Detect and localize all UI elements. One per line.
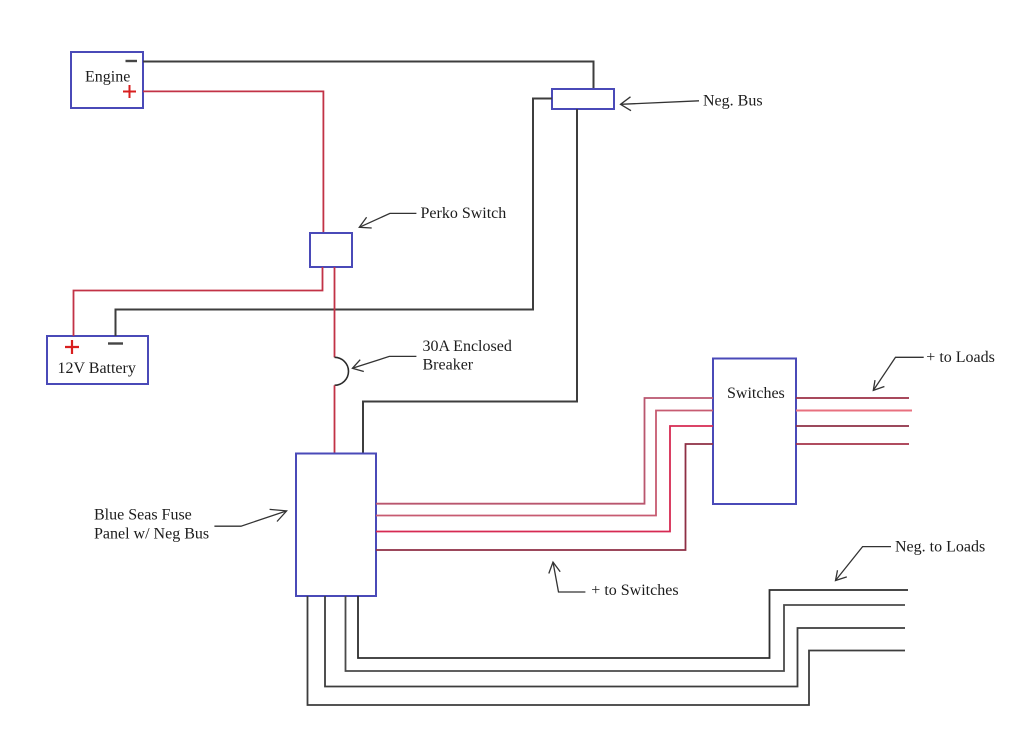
leader arrow to + loads wires bbox=[873, 357, 923, 390]
svg-text:+ to Switches: + to Switches bbox=[591, 582, 678, 599]
wire perko switch to battery positive bbox=[74, 267, 323, 336]
svg-text:Engine: Engine bbox=[85, 69, 130, 86]
svg-text:Perko Switch: Perko Switch bbox=[421, 205, 507, 222]
battery positive terminal marker bbox=[65, 340, 79, 354]
wire fuse panel to switches 1 bbox=[376, 398, 713, 504]
switches block bbox=[713, 359, 796, 505]
wire switches to loads 1 bbox=[796, 397, 909, 399]
wire fuse panel to switches 2 bbox=[376, 411, 713, 516]
battery negative terminal marker bbox=[108, 342, 123, 344]
fuse panel block bbox=[296, 454, 376, 597]
wire fuse panel neg to loads 2 bbox=[346, 596, 906, 671]
engine block bbox=[71, 52, 143, 108]
breaker 30A arc bbox=[335, 357, 349, 385]
leader arrow to neg loads wires bbox=[836, 547, 892, 581]
wire fuse panel neg to loads 1 bbox=[358, 590, 908, 658]
wire engine negative to neg bus bbox=[143, 62, 594, 90]
wire breaker to fuse panel bbox=[334, 385, 336, 453]
wire perko switch to breaker bbox=[334, 267, 336, 357]
wire switches to loads 2 bbox=[796, 410, 912, 412]
svg-text:Switches: Switches bbox=[727, 385, 785, 402]
battery block bbox=[47, 336, 148, 384]
neg bus block bbox=[552, 89, 614, 109]
leader arrow to neg bus bbox=[621, 97, 700, 111]
perko switch block bbox=[310, 233, 352, 267]
svg-text:Breaker: Breaker bbox=[423, 357, 474, 374]
wire fuse panel neg to loads 3 bbox=[325, 596, 905, 687]
wire switches to loads 3 bbox=[796, 425, 909, 427]
leader arrow to + switches wires bbox=[549, 562, 586, 592]
label 30A Enclosed Breaker bbox=[423, 338, 512, 374]
wire battery negative to neg bus bbox=[116, 99, 553, 337]
wire fuse panel neg to loads 4 bbox=[308, 596, 906, 705]
wire fuse panel to switches 3 bbox=[376, 426, 713, 532]
svg-text:+ to Loads: + to Loads bbox=[926, 349, 995, 366]
svg-text:Blue Seas Fuse: Blue Seas Fuse bbox=[94, 507, 192, 524]
wire neg bus to fuse panel bbox=[363, 109, 577, 454]
svg-text:Neg. to Loads: Neg. to Loads bbox=[895, 539, 985, 556]
engine negative terminal marker bbox=[126, 60, 138, 62]
engine positive terminal marker bbox=[123, 85, 136, 98]
wire fuse panel to switches 4 bbox=[376, 444, 713, 550]
svg-text:30A Enclosed: 30A Enclosed bbox=[423, 338, 512, 355]
wire engine positive to perko switch bbox=[143, 91, 323, 233]
wire switches to loads 4 bbox=[796, 443, 909, 445]
leader arrow to perko switch bbox=[359, 213, 416, 228]
leader arrow to fuse panel bbox=[214, 509, 286, 526]
svg-text:Panel w/ Neg Bus: Panel w/ Neg Bus bbox=[94, 526, 209, 543]
svg-text:12V Battery: 12V Battery bbox=[58, 360, 136, 377]
svg-text:Neg. Bus: Neg. Bus bbox=[703, 93, 763, 110]
leader arrow to breaker bbox=[352, 356, 416, 371]
label Blue Seas Fuse Panel w/ Neg Bus bbox=[94, 507, 209, 543]
